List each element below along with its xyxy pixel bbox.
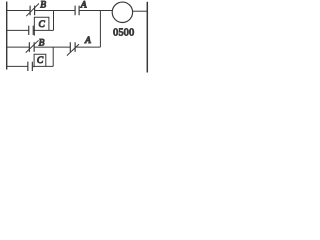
svg-text:B: B [40, 0, 46, 10]
wire from coil to right rail [133, 10, 148, 12]
svg-text:C: C [37, 56, 44, 66]
svg-text:A: A [80, 1, 87, 11]
right power rail [146, 2, 148, 73]
svg-text:A: A [84, 36, 91, 46]
svg-text:0500: 0500 [113, 28, 134, 39]
contact A rung2 NC slash [67, 44, 79, 56]
branch2 wire from contact C to riser [32, 65, 53, 67]
contact A rung1 (NO) bars [75, 6, 79, 16]
contact C rung2 (NO) bars [28, 62, 32, 71]
contact B rung1 (NC) bars [30, 6, 34, 16]
left power rail [6, 2, 8, 70]
wire rung1 from contact A to coil [79, 10, 112, 12]
contact A rung2 (NC) bars [70, 42, 75, 52]
contact B rung2 NC slash [26, 40, 39, 52]
branch2 wire from left rail to contact C [7, 65, 28, 67]
wire rung2 from contact A to junction [75, 46, 100, 48]
branch1 wire from left rail to contact C [7, 29, 29, 31]
contact B rung2 (NC) bars [29, 42, 34, 52]
wire rung2 between contact B and contact A [34, 46, 70, 48]
contact C rung1 (NO) bars [29, 26, 34, 35]
wire rung1 between contact B and contact A [35, 10, 76, 12]
svg-text:C: C [39, 20, 46, 30]
contact B rung1 NC slash [26, 4, 39, 17]
label box C rung1 [34, 17, 49, 35]
wire rung2 from left rail to contact B [7, 46, 30, 48]
branch1 wire from contact C to riser [33, 29, 53, 31]
branch2 riser to rung2 main line [52, 47, 54, 66]
branch1 riser to rung1 main line [53, 11, 55, 31]
output coil circle [112, 2, 132, 22]
label box C rung2 [34, 54, 46, 67]
junction vertical wire joining rung2 output to rung1 [99, 11, 101, 48]
wire rung1 from left rail to contact B [7, 10, 30, 12]
